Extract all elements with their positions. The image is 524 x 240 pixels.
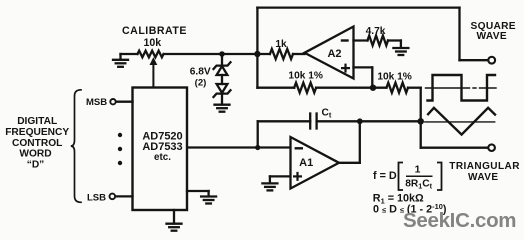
square wave axis line: [426, 87, 497, 89]
node C junction: [417, 118, 424, 125]
wire zener branch down: [221, 54, 223, 67]
wire node A up to top run: [256, 8, 258, 54]
svg-text:WAVE: WAVE: [476, 31, 506, 42]
ground at DAC bottom: [167, 224, 182, 231]
svg-text:1k: 1k: [275, 39, 287, 50]
wire pot to node A: [164, 53, 270, 55]
wire DAC OUT2 stub to ground: [187, 191, 209, 196]
capacitor Ct: [310, 114, 316, 129]
resistor R 1k: [270, 49, 293, 59]
wire corner down to node C: [420, 88, 422, 148]
wire vertical drop to square wave output: [458, 8, 460, 61]
zener diode D2 6.8V: [214, 84, 231, 97]
ground at DAC OUT2: [201, 197, 216, 204]
svg-text:LSB: LSB: [87, 192, 106, 203]
digital input dots: [118, 133, 122, 165]
wire capacitor to node C: [317, 120, 421, 122]
wire 1k to A2 output: [293, 53, 305, 55]
wire A1 output riser: [339, 121, 360, 163]
svg-text:CALIBRATE: CALIBRATE: [122, 25, 187, 37]
svg-text:10k 1%: 10k 1%: [377, 71, 412, 82]
wire ground to potentiometer left end: [121, 53, 138, 55]
wire DAC OUT1 to A1 inverting input: [187, 146, 290, 148]
triangular wave trace: [428, 108, 495, 135]
wire top feedback run from node A to square-wave drop: [257, 6, 459, 8]
svg-text:“D”: “D”: [27, 160, 45, 171]
square wave trace: [428, 75, 496, 101]
formula f = D [1/(8R1Ct)]: [373, 163, 442, 191]
svg-text:10k: 10k: [143, 37, 161, 49]
terminal TRIANGULAR WAVE output: [488, 144, 495, 151]
svg-text:CONTROL: CONTROL: [12, 138, 62, 149]
svg-text:6.8V: 6.8V: [190, 66, 211, 77]
label SQUARE WAVE: [471, 21, 516, 42]
node A junction: [254, 51, 260, 57]
pin minus A1: [295, 147, 303, 149]
label TRIANGULAR WAVE: [449, 161, 520, 183]
op-amp A2 triangle (points left): [305, 27, 354, 79]
pin minus A2: [341, 39, 349, 41]
svg-text:WAVE: WAVE: [468, 172, 499, 183]
wire 10k to corner: [408, 87, 421, 89]
wire DAC bottom stub to ground: [173, 210, 175, 224]
svg-text:A1: A1: [299, 157, 313, 169]
wire A2 inverting input to 4.7k: [354, 39, 368, 41]
svg-text:1: 1: [415, 164, 421, 175]
triangular wave axis line: [425, 121, 495, 123]
node zener tap junction: [219, 51, 225, 57]
brace for digital word: [71, 90, 81, 203]
wire divider line left segment: [257, 87, 294, 89]
ground at zeners: [215, 105, 230, 112]
svg-text:TRIANGULAR: TRIANGULAR: [449, 161, 520, 172]
zener diode D1 6.8V: [214, 62, 231, 75]
svg-text:MSB: MSB: [86, 97, 107, 108]
wire A1 non-inverting input to ground: [270, 176, 291, 183]
svg-text:4.7k: 4.7k: [366, 26, 386, 37]
ground at 4.7k: [393, 48, 408, 55]
wire zener to ground: [221, 94, 223, 105]
ground at potentiometer: [113, 54, 128, 67]
wire 4.7k to ground: [388, 41, 401, 48]
op-amp A1 triangle: [291, 137, 340, 189]
wire node A down to divider line: [256, 54, 258, 88]
svg-text:SeekIC.com: SeekIC.com: [403, 209, 516, 232]
terminal MSB: [110, 99, 115, 104]
label DIGITAL FREQUENCY CONTROL WORD D: [5, 116, 69, 170]
node B junction at A2 plus input: [370, 85, 376, 91]
wire MSB terminal to DAC: [116, 101, 132, 103]
resistor R 10k CALIBRATE potentiometer: [138, 51, 164, 58]
node E junction at A1 inverting input: [255, 145, 260, 150]
wire square wave output stub: [460, 59, 488, 61]
pin plus A1: [293, 172, 302, 181]
wire feedback corner down to A1 inverting input: [257, 121, 259, 147]
node D junction at A1 output riser: [357, 118, 363, 124]
svg-text:f = D: f = D: [373, 170, 397, 182]
wire A2 non-inverting input down to node B: [354, 67, 373, 87]
wire to node B: [316, 87, 386, 89]
wire integrator feedback left segment: [258, 120, 311, 122]
svg-text:DIGITAL: DIGITAL: [17, 116, 57, 127]
resistor R 10k 1% first: [294, 83, 316, 93]
ground at A1 non-inverting input: [262, 183, 277, 190]
wire between zeners: [221, 75, 223, 84]
svg-text:WORD: WORD: [19, 149, 51, 160]
svg-text:A2: A2: [327, 48, 341, 60]
pin plus A2: [341, 64, 350, 73]
svg-text:etc.: etc.: [154, 152, 171, 163]
potentiometer wiper arrow: [150, 58, 156, 87]
terminal LSB: [110, 194, 116, 200]
svg-text:(2): (2): [195, 77, 207, 88]
svg-text:FREQUENCY: FREQUENCY: [5, 127, 69, 138]
DAC box AD7520/AD7533: [133, 88, 188, 211]
terminal SQUARE WAVE output: [488, 57, 495, 64]
svg-text:10k 1%: 10k 1%: [288, 70, 323, 81]
wire triangular output stub: [421, 147, 488, 149]
resistor R 4.7k: [368, 36, 389, 46]
resistor R 10k 1% second: [387, 83, 408, 93]
wire LSB terminal to DAC: [116, 195, 133, 197]
